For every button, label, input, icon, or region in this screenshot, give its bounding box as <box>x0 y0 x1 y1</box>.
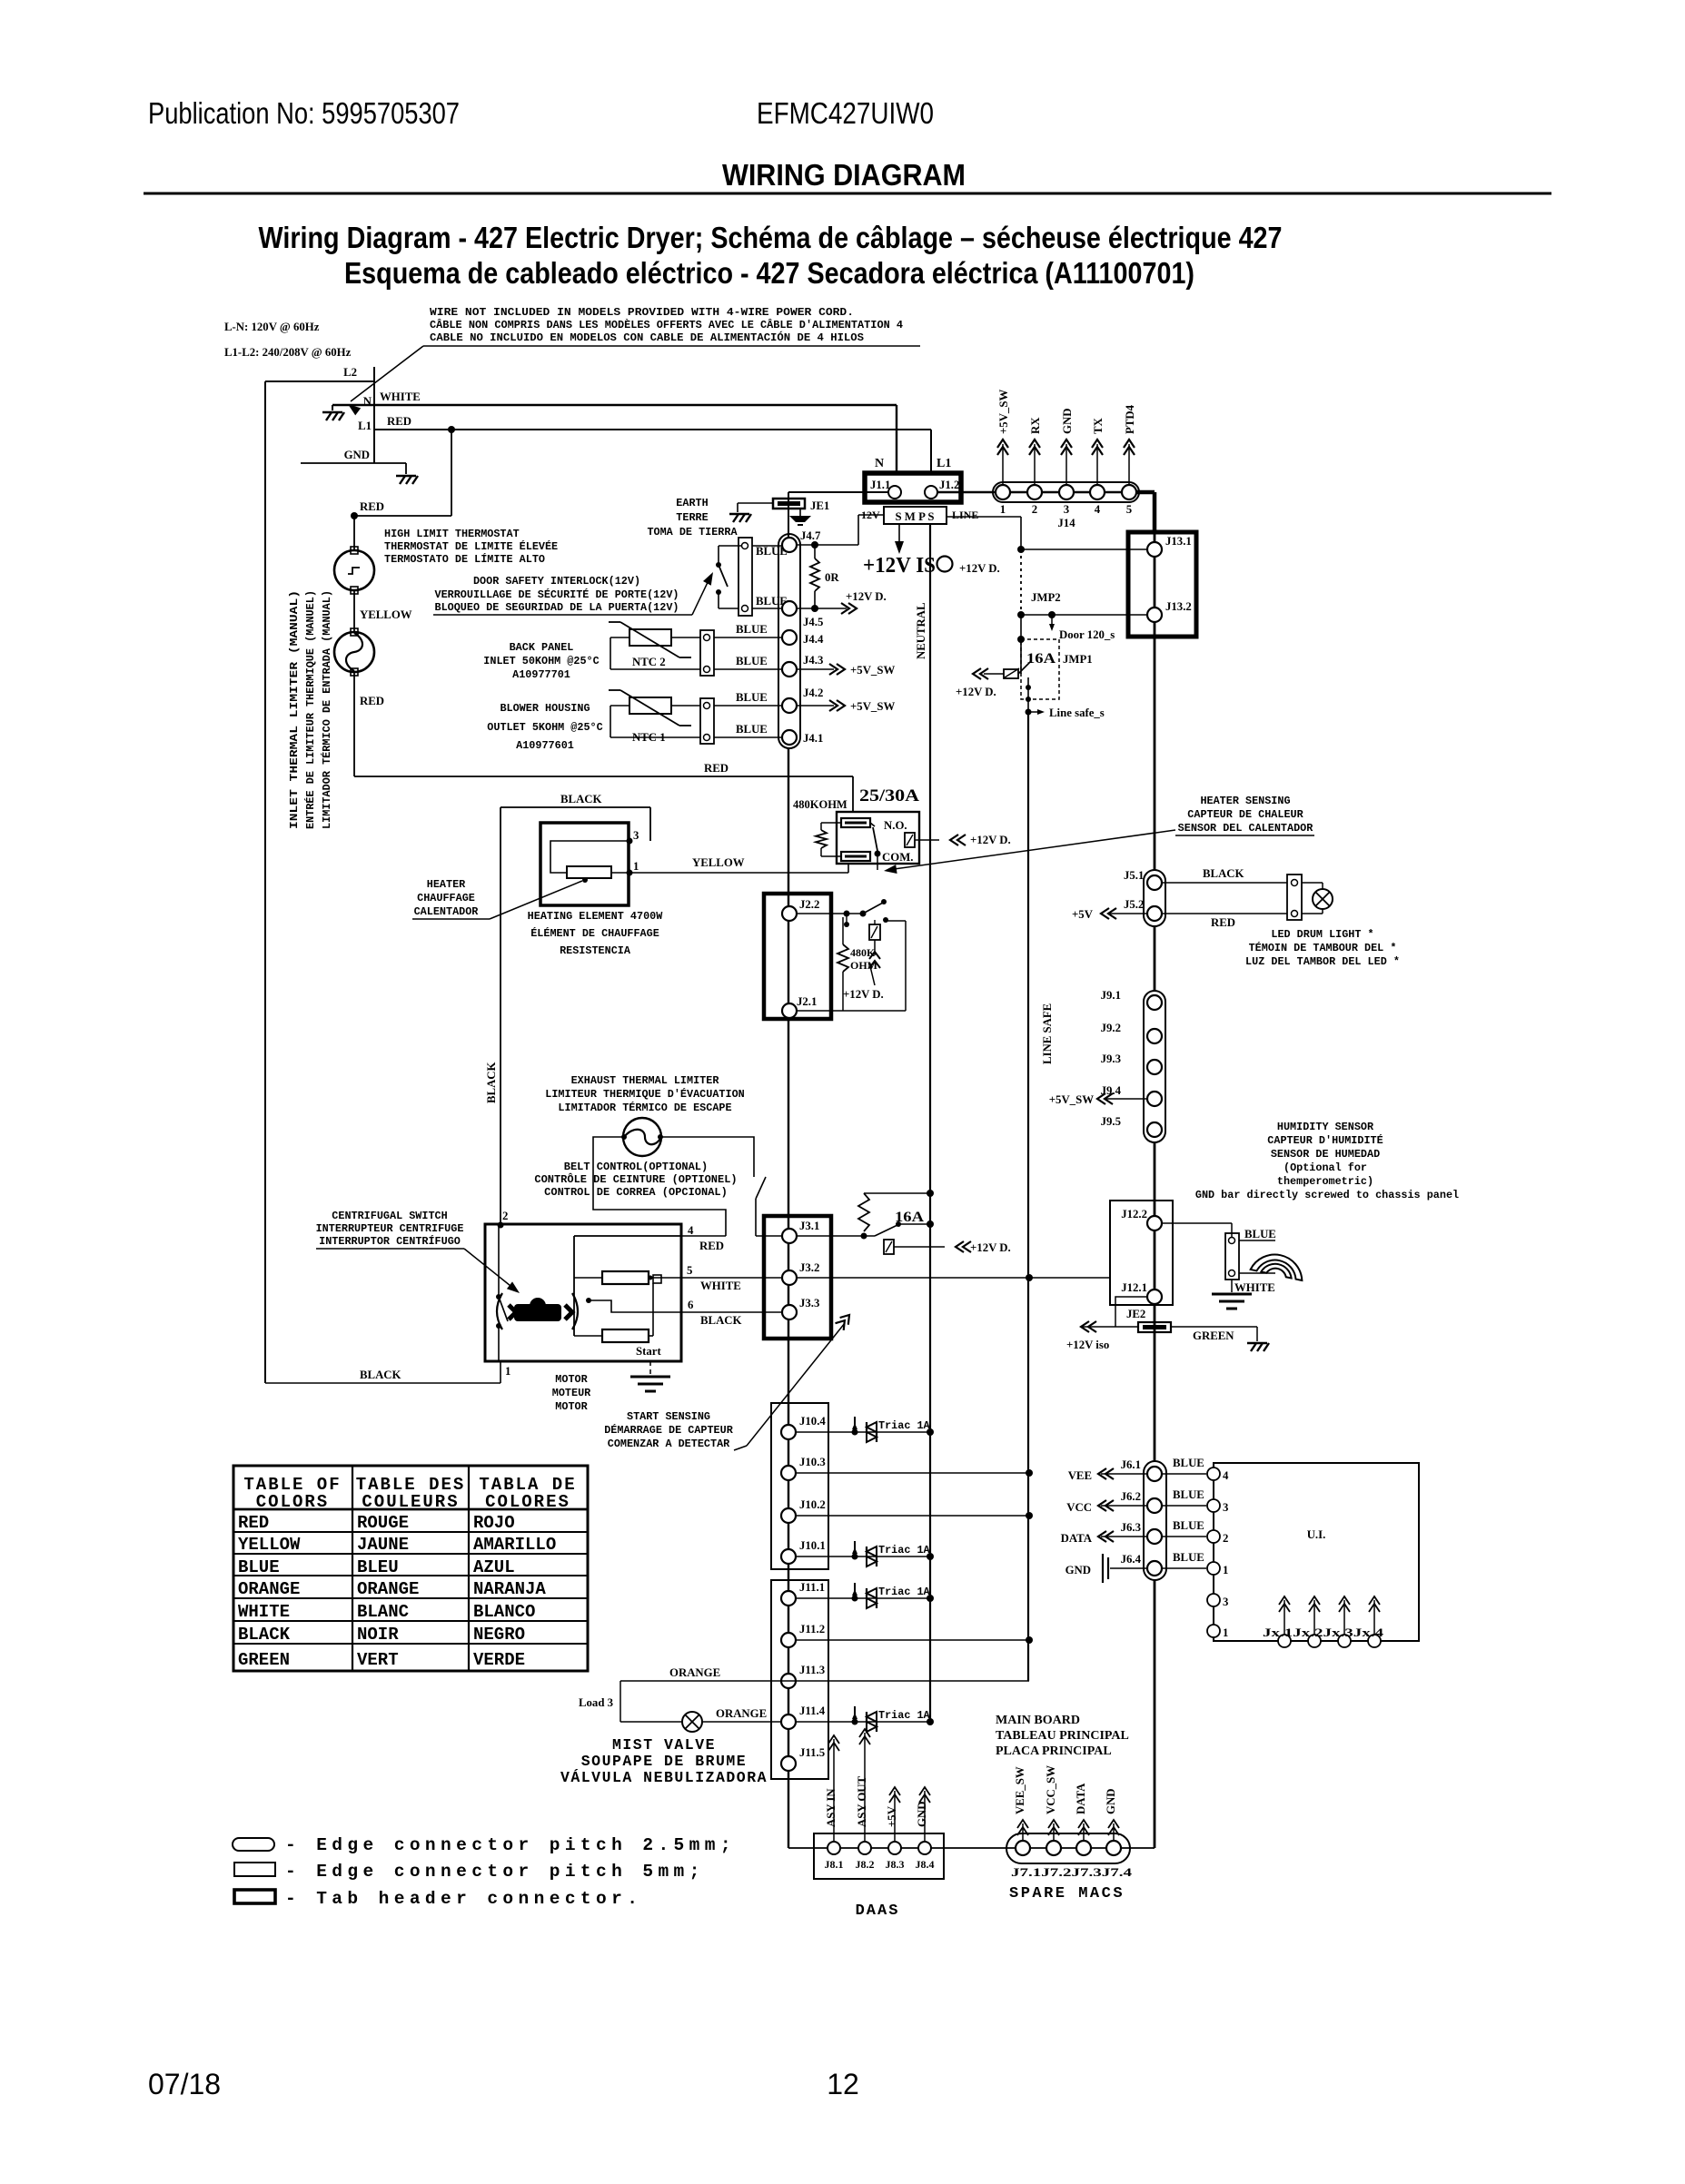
svg-text:J2.1: J2.1 <box>797 995 817 1008</box>
svg-text:ORANGE: ORANGE <box>669 1666 720 1679</box>
wire J3.2 long <box>797 1277 1110 1279</box>
pin J11.4 <box>781 1715 796 1729</box>
svg-text:COMENZAR A DETECTAR: COMENZAR A DETECTAR <box>608 1438 730 1450</box>
svg-text:GND: GND <box>1105 1789 1117 1814</box>
pin J14.1 <box>996 485 1010 499</box>
svg-text:WHITE: WHITE <box>700 1280 741 1292</box>
pin J11.1 <box>781 1591 796 1606</box>
svg-text:ASY OUT: ASY OUT <box>856 1775 868 1827</box>
svg-text:NOIR: NOIR <box>357 1625 399 1645</box>
svg-text:N: N <box>875 457 884 470</box>
pin J7.2 <box>1046 1841 1061 1855</box>
svg-text:HIGH LIMIT THERMOSTAT: HIGH LIMIT THERMOSTAT <box>384 528 520 540</box>
heater outer box <box>540 823 629 905</box>
svg-text:4: 4 <box>1223 1469 1229 1482</box>
pin J4.7 <box>782 538 797 552</box>
svg-text:YELLOW: YELLOW <box>360 608 412 621</box>
svg-text:U.I.: U.I. <box>1307 1528 1326 1541</box>
svg-text:HEATING ELEMENT 4700W: HEATING ELEMENT 4700W <box>528 910 664 923</box>
NTC1 loop wires <box>610 705 629 707</box>
connector J14 (edge 2.5mm) <box>993 482 1139 502</box>
bus J3 to J10 <box>788 1339 789 1403</box>
bus J6 to J7 <box>1154 1580 1156 1848</box>
wire RED horizontal <box>354 776 853 777</box>
pin J13.2 <box>1147 608 1162 622</box>
svg-text:L2: L2 <box>343 366 357 379</box>
svg-text:SOUPAPE DE BRUME: SOUPAPE DE BRUME <box>581 1753 747 1770</box>
svg-text:2: 2 <box>1223 1532 1228 1545</box>
svg-text:SENSOR DE HUMEDAD: SENSOR DE HUMEDAD <box>1271 1148 1380 1161</box>
VEE arrow <box>1101 1473 1147 1475</box>
svg-text:Load 3: Load 3 <box>579 1696 613 1709</box>
wire from limiter down to RED bus <box>353 672 355 776</box>
UI pins 3,1 lower <box>1207 1594 1220 1606</box>
pin J6.4 <box>1147 1561 1162 1576</box>
triac 1A <box>852 1719 858 1725</box>
svg-text:LINE SAFE: LINE SAFE <box>1041 1003 1054 1064</box>
svg-text:RED: RED <box>360 695 384 707</box>
svg-text:RED: RED <box>1211 916 1235 929</box>
pin J6.2 <box>1147 1498 1162 1513</box>
pin J9.2 <box>1147 1029 1162 1043</box>
svg-text:CABLE NO INCLUIDO EN MODELOS C: CABLE NO INCLUIDO EN MODELOS CON CABLE D… <box>430 331 864 344</box>
NTC2 thermistor <box>629 629 671 646</box>
svg-text:3: 3 <box>1223 1596 1228 1608</box>
svg-text:LINE: LINE <box>952 509 978 521</box>
pin J11.3 <box>781 1674 796 1688</box>
svg-text:1: 1 <box>1223 1564 1228 1576</box>
wire WHITE (N) <box>332 404 897 406</box>
svg-text:DATA: DATA <box>1061 1532 1093 1545</box>
svg-text:GND: GND <box>916 1802 928 1827</box>
pin J5.1 <box>1147 875 1162 890</box>
svg-text:16A: 16A <box>1026 651 1056 667</box>
svg-text:3: 3 <box>1223 1501 1228 1514</box>
svg-text:WIRE NOT INCLUDED IN MODELS PR: WIRE NOT INCLUDED IN MODELS PROVIDED WIT… <box>430 306 854 319</box>
svg-text:BLACK: BLACK <box>485 1062 498 1103</box>
pin J8.1 <box>828 1842 840 1854</box>
svg-text:BELT CONTROL(OPTIONAL): BELT CONTROL(OPTIONAL) <box>564 1161 708 1173</box>
wire J1.2 to J14 pin1 <box>937 491 1136 493</box>
step from J12.1 <box>1115 1297 1147 1327</box>
pin J4.2 <box>782 698 797 713</box>
svg-text:Jx.1Jx.2Jx.3Jx.4: Jx.1Jx.2Jx.3Jx.4 <box>1263 1626 1384 1639</box>
wire J12.2 to humidity connector <box>1162 1222 1232 1224</box>
svg-text:themperometric): themperometric) <box>1277 1175 1373 1188</box>
svg-text:RED: RED <box>360 500 384 513</box>
svg-text:TX: TX <box>1092 417 1105 434</box>
NTC1 thermistor <box>629 697 671 714</box>
triac 1A <box>852 1596 858 1602</box>
svg-text:2: 2 <box>502 1210 508 1222</box>
svg-text:VERDE: VERDE <box>473 1650 525 1670</box>
humidity ground <box>1231 1280 1233 1292</box>
svg-text:A10977601: A10977601 <box>516 739 574 752</box>
relay switch blade <box>870 823 875 826</box>
wire YELLOW to relay <box>629 872 848 874</box>
mist valve lamp <box>682 1712 702 1732</box>
svg-text:THERMOSTAT DE LIMITE ÉLEVÉE: THERMOSTAT DE LIMITE ÉLEVÉE <box>384 540 558 553</box>
svg-text:+12V D.: +12V D. <box>970 1241 1011 1254</box>
wire JE2 to green ground <box>1171 1326 1257 1328</box>
svg-text:6: 6 <box>688 1299 694 1311</box>
svg-text:YELLOW: YELLOW <box>238 1535 301 1555</box>
svg-text:J12.2: J12.2 <box>1121 1208 1147 1220</box>
limiter right to belt switch <box>661 1137 754 1177</box>
connector J6 (edge 2.5mm) <box>1144 1461 1166 1580</box>
pin J10.2 <box>781 1508 796 1523</box>
svg-text:J11.2: J11.2 <box>799 1623 825 1636</box>
svg-text:BLUE: BLUE <box>1173 1551 1204 1564</box>
svg-text:COLORS: COLORS <box>256 1492 329 1512</box>
svg-text:BLUE: BLUE <box>1173 1488 1204 1501</box>
svg-text:J4.3: J4.3 <box>803 654 823 667</box>
svg-text:J8.3: J8.3 <box>886 1858 905 1871</box>
junction on RED wire <box>448 426 455 433</box>
wire: left border vertical <box>264 381 266 1383</box>
J14 breakout arrows <box>1002 444 1004 485</box>
svg-text:+5V_SW: +5V_SW <box>1049 1093 1094 1106</box>
wire to high limit thermostat <box>351 512 358 519</box>
wire J10.3 to line safe <box>796 1472 1029 1474</box>
svg-text:- Edge connector pitch 5mm;: - Edge connector pitch 5mm; <box>285 1862 705 1882</box>
svg-text:CENTRIFUGAL SWITCH: CENTRIFUGAL SWITCH <box>332 1210 447 1222</box>
svg-text:3: 3 <box>1064 503 1069 516</box>
DAAS box <box>814 1833 944 1879</box>
belt switch lower wire to J3.1 <box>755 1199 757 1236</box>
svg-text:J3.2: J3.2 <box>799 1261 819 1274</box>
svg-text:Triac 1A: Triac 1A <box>878 1586 931 1598</box>
svg-text:BLACK: BLACK <box>1203 867 1244 880</box>
svg-text:VERT: VERT <box>357 1650 399 1670</box>
svg-text:Triac 1A: Triac 1A <box>878 1419 931 1432</box>
start winding <box>574 1335 602 1337</box>
svg-text:1: 1 <box>1223 1626 1228 1639</box>
J7 breakout arrows <box>1022 1823 1024 1840</box>
svg-text:J13.1: J13.1 <box>1165 535 1192 548</box>
svg-text:GND: GND <box>344 449 370 461</box>
svg-text:CAPTEUR DE CHALEUR: CAPTEUR DE CHALEUR <box>1187 808 1303 821</box>
wire J11.1 triac to neutral <box>796 1597 930 1599</box>
svg-text:JMP1: JMP1 <box>1063 653 1093 666</box>
wire J14 pin5 to J13 bus <box>1136 490 1155 495</box>
svg-text:BLACK: BLACK <box>560 793 602 805</box>
svg-text:JE1: JE1 <box>810 499 829 512</box>
pin J8.2 <box>858 1842 871 1854</box>
svg-text:CÂBLE NON COMPRIS DANS LES MOD: CÂBLE NON COMPRIS DANS LES MODÈLES OFFER… <box>430 319 903 331</box>
svg-text:YELLOW: YELLOW <box>692 856 745 869</box>
svg-text:J4.2: J4.2 <box>803 687 823 699</box>
svg-text:Line safe_s: Line safe_s <box>1049 707 1105 719</box>
connector J9 (edge 2.5mm) <box>1144 991 1165 1142</box>
wire J5.1 to lamp connector <box>1162 882 1287 884</box>
pin J14.4 <box>1090 485 1105 499</box>
wire J4.3 +5V_SW arrow <box>797 668 834 670</box>
svg-text:MIST VALVE: MIST VALVE <box>612 1736 716 1754</box>
wire to JE1 <box>738 502 773 504</box>
svg-text:480K: 480K <box>850 946 876 959</box>
pin J4.1 <box>782 730 797 745</box>
pin J13.1 <box>1147 542 1162 557</box>
COM sense stub <box>877 854 878 870</box>
svg-text:DAAS: DAAS <box>856 1902 900 1920</box>
svg-text:CALENTADOR: CALENTADOR <box>414 905 480 918</box>
svg-text:J13.2: J13.2 <box>1165 600 1192 613</box>
+12V iso arrow to JE2 <box>1081 1321 1089 1332</box>
svg-text:J5.1: J5.1 <box>1124 869 1144 882</box>
svg-text:25/30A: 25/30A <box>859 786 919 805</box>
svg-text:ASY IN: ASY IN <box>825 1788 838 1827</box>
svg-text:0R: 0R <box>825 571 839 584</box>
SMPS box <box>884 507 947 524</box>
svg-text:1: 1 <box>633 860 639 873</box>
pin J3.2 <box>782 1270 797 1285</box>
svg-text:J4.5: J4.5 <box>803 616 823 628</box>
DATA arrow <box>1101 1536 1147 1537</box>
drum light lamp <box>1302 882 1323 884</box>
svg-text:ÉLÉMENT DE CHAUFFAGE: ÉLÉMENT DE CHAUFFAGE <box>530 927 659 940</box>
GND at J6.4 <box>1110 1567 1147 1569</box>
pin J4.3 <box>782 662 797 677</box>
legend: edge connector 2.5mm <box>233 1838 274 1851</box>
svg-text:LIMITEUR THERMIQUE D'ÉVACUATIO: LIMITEUR THERMIQUE D'ÉVACUATION <box>545 1088 744 1101</box>
jumper JMP2 dashed <box>1020 549 1022 615</box>
svg-text:+12V D.: +12V D. <box>959 562 1000 575</box>
ground symbol GND <box>396 476 418 484</box>
exhaust thermal limiter symbol <box>623 1118 661 1156</box>
humidity connector (5mm) <box>1225 1233 1239 1280</box>
wire pin1 BLACK to left border <box>500 1361 501 1383</box>
svg-text:Door 120_s: Door 120_s <box>1059 628 1115 641</box>
wire pin6 to J3.3 <box>681 1311 782 1313</box>
svg-text:J7.1J7.2J7.3J7.4: J7.1J7.2J7.3J7.4 <box>1011 1866 1133 1879</box>
pin J8.4 <box>918 1842 931 1854</box>
wire GND <box>301 462 406 464</box>
wire J4.5 +12VD arrow <box>797 608 847 609</box>
svg-text:J5.2: J5.2 <box>1124 898 1144 911</box>
svg-text:J6.4: J6.4 <box>1121 1553 1142 1566</box>
svg-text:BLACK: BLACK <box>238 1625 291 1645</box>
svg-text:12V: 12V <box>861 509 880 521</box>
relay bottom contact connector <box>841 852 870 861</box>
svg-text:LED DRUM LIGHT *: LED DRUM LIGHT * <box>1271 928 1373 941</box>
wire J1.1 to JE1/J4.7 vertical <box>788 492 789 545</box>
svg-text:EFMC427UIW0: EFMC427UIW0 <box>757 96 934 130</box>
svg-text:TERRE: TERRE <box>676 511 708 524</box>
svg-text:J6.3: J6.3 <box>1121 1521 1141 1534</box>
svg-text:CONTRÔLE DE CEINTURE (OPTIONEL: CONTRÔLE DE CEINTURE (OPTIONEL) <box>534 1172 737 1186</box>
svg-text:+12V iso: +12V iso <box>1066 1339 1109 1351</box>
LINE SAFE bus <box>1027 712 1029 1681</box>
svg-text:J9.1: J9.1 <box>1101 989 1121 1002</box>
connector J12 box <box>1110 1201 1173 1305</box>
humidity sensor arcs <box>1239 1240 1275 1241</box>
pin J2.1 <box>782 1003 797 1018</box>
svg-text:ROJO: ROJO <box>473 1513 515 1533</box>
NTC2 connector (5mm) <box>700 630 714 676</box>
wire pin4 <box>681 1235 726 1237</box>
svg-text:J4.7: J4.7 <box>800 529 821 542</box>
wire down to 16A switch <box>1020 615 1022 674</box>
bus from J4.1 down across RED/YELLOW <box>788 748 789 894</box>
svg-text:ENTRÉE DE LIMITEUR THERMIQUE (: ENTRÉE DE LIMITEUR THERMIQUE (MANUEL) <box>303 590 317 829</box>
svg-text:BLUE: BLUE <box>1173 1519 1204 1532</box>
pin J6.3 <box>1147 1529 1162 1544</box>
svg-text:J10.3: J10.3 <box>799 1456 826 1468</box>
svg-text:MAIN BOARD: MAIN BOARD <box>996 1714 1080 1727</box>
svg-text:HEATER: HEATER <box>427 878 466 891</box>
svg-text:ROUGE: ROUGE <box>357 1513 409 1533</box>
svg-text:J8.4: J8.4 <box>916 1858 935 1871</box>
wire JE1 vertical through <box>788 509 789 534</box>
svg-text:BLACK: BLACK <box>360 1369 401 1381</box>
svg-text:Triac 1A: Triac 1A <box>878 1544 931 1556</box>
bus through J12 <box>1154 1201 1156 1305</box>
svg-text:LUZ DEL TAMBOR DEL LED *: LUZ DEL TAMBOR DEL LED * <box>1245 955 1400 968</box>
connector J7 (edge 2.5mm) <box>1006 1833 1130 1863</box>
svg-text:ORANGE: ORANGE <box>238 1579 300 1599</box>
table of colors <box>233 1466 588 1671</box>
svg-text:DOOR SAFETY INTERLOCK(12V): DOOR SAFETY INTERLOCK(12V) <box>473 575 640 588</box>
svg-text:HEATER SENSING: HEATER SENSING <box>1200 795 1290 807</box>
svg-text:CHAUFFAGE: CHAUFFAGE <box>417 892 475 904</box>
svg-text:BLUE: BLUE <box>736 623 768 636</box>
loop to J2.1 <box>797 1010 906 1012</box>
svg-text:GND: GND <box>1061 409 1074 434</box>
belt switch blade <box>756 1177 766 1199</box>
svg-text:+5V_SW: +5V_SW <box>850 700 895 713</box>
pin J2.2 <box>782 906 797 921</box>
svg-text:BLANCO: BLANCO <box>473 1602 535 1622</box>
svg-text:ORANGE: ORANGE <box>357 1579 419 1599</box>
relay coil <box>905 833 915 847</box>
svg-text:J6.1: J6.1 <box>1121 1458 1141 1471</box>
wire to J13.1 <box>1017 546 1025 553</box>
relay top contact connector <box>841 818 870 827</box>
svg-text:+5V_SW: +5V_SW <box>997 390 1010 434</box>
svg-text:BACK PANEL: BACK PANEL <box>510 641 574 654</box>
pin J12.1 <box>1147 1290 1162 1304</box>
svg-text:PTD4: PTD4 <box>1124 404 1136 434</box>
svg-text:OUTLET 5KOHM @25°C: OUTLET 5KOHM @25°C <box>487 721 602 734</box>
wire J1.1 left to JE1 drop <box>788 491 888 493</box>
triac 1A <box>852 1429 858 1436</box>
pin J8.3 <box>888 1842 901 1854</box>
svg-text:GREEN: GREEN <box>1193 1329 1234 1342</box>
svg-text:VEE: VEE <box>1068 1469 1092 1482</box>
svg-text:TOMA DE TIERRA: TOMA DE TIERRA <box>647 526 738 539</box>
pin J5.2 <box>1147 906 1162 921</box>
pin J10.1 <box>781 1549 796 1564</box>
pin J11.5 <box>781 1756 796 1771</box>
svg-text:J11.4: J11.4 <box>799 1705 826 1717</box>
bus J5 to J9 <box>1154 926 1156 991</box>
VCC arrow <box>1101 1505 1147 1507</box>
bus J2 to J3 <box>788 1019 789 1216</box>
svg-text:BLUE: BLUE <box>736 655 768 667</box>
svg-text:RED: RED <box>704 762 729 775</box>
wire J11.2 to line safe <box>796 1639 1029 1641</box>
svg-text:INTERRUPTEUR CENTRIFUGE: INTERRUPTEUR CENTRIFUGE <box>316 1222 464 1235</box>
pin J7.3 <box>1076 1841 1091 1855</box>
bus through J2 <box>788 894 789 1019</box>
svg-text:BLEU: BLEU <box>357 1557 399 1577</box>
ground below JE1 <box>799 509 801 516</box>
svg-text:MOTOR: MOTOR <box>555 1373 588 1386</box>
svg-text:L-N: 120V @ 60Hz: L-N: 120V @ 60Hz <box>224 321 320 333</box>
svg-text:DATA: DATA <box>1075 1783 1087 1814</box>
svg-text:+5V: +5V <box>1072 908 1094 921</box>
svg-text:INLET 50KOHM @25°C: INLET 50KOHM @25°C <box>483 655 599 667</box>
pin J10.4 <box>781 1425 796 1439</box>
Jx pins on UI bottom <box>1278 1635 1291 1647</box>
svg-text:J4.1: J4.1 <box>803 732 823 745</box>
svg-text:AZUL: AZUL <box>473 1557 515 1577</box>
svg-text:RESISTENCIA: RESISTENCIA <box>560 944 631 957</box>
callout to heater element <box>490 881 582 919</box>
Line safe_s stub <box>1028 711 1041 713</box>
svg-text:J9.3: J9.3 <box>1101 1052 1121 1065</box>
firing arrow <box>874 940 876 955</box>
svg-text:VERROUILLAGE DE SÉCURITÉ DE PO: VERROUILLAGE DE SÉCURITÉ DE PORTE(12V) <box>434 588 679 601</box>
svg-text:TERMOSTATO DE LÍMITE ALTO: TERMOSTATO DE LÍMITE ALTO <box>384 553 545 566</box>
svg-text:BLOWER HOUSING: BLOWER HOUSING <box>500 702 590 715</box>
wire between thermostats <box>353 590 355 632</box>
tab header connector J2 <box>764 894 831 1019</box>
svg-text:GREEN: GREEN <box>238 1650 290 1670</box>
wire J11.3 orange loop to line safe <box>620 1680 1029 1682</box>
callout to centrifugal switch <box>464 1249 515 1290</box>
Door 120_s stub <box>1051 615 1053 628</box>
svg-text:5: 5 <box>1126 503 1132 516</box>
motor armature <box>497 1293 502 1329</box>
tab header connector J3 <box>764 1216 831 1339</box>
svg-text:ORANGE: ORANGE <box>716 1707 767 1720</box>
svg-text:480KOHM: 480KOHM <box>793 798 847 811</box>
bottom wire J8-J7 <box>788 1847 1155 1849</box>
svg-text:SPARE MACS: SPARE MACS <box>1009 1885 1125 1902</box>
heater sensing callout diagonal <box>887 830 1175 870</box>
bus JE2 down to J6 <box>1154 1305 1156 1461</box>
16A switch at J3.1 <box>797 1235 875 1237</box>
svg-text:BLUE: BLUE <box>1244 1228 1276 1240</box>
high limit thermostat (manual) <box>334 550 374 590</box>
door interlock connector (5mm) <box>738 538 752 616</box>
svg-text:J8.2: J8.2 <box>856 1858 875 1871</box>
svg-text:GND bar directly screwed to ch: GND bar directly screwed to chassis pane… <box>1195 1189 1459 1201</box>
centrifugal switch contacts <box>498 1225 500 1297</box>
connector J5 (edge 2.5mm) <box>1144 870 1165 926</box>
start switch contact <box>653 1275 661 1283</box>
LINE wire from SMPS <box>947 516 1021 518</box>
svg-text:(Optional for: (Optional for <box>1284 1161 1367 1174</box>
svg-text:VCC: VCC <box>1066 1501 1092 1514</box>
svg-text:BLOQUEO DE SEGURIDAD DE LA PUE: BLOQUEO DE SEGURIDAD DE LA PUERTA(12V) <box>434 601 679 614</box>
inlet thermal limiter circle <box>334 632 374 672</box>
callout to door switch <box>692 577 710 615</box>
svg-text:S M P S: S M P S <box>895 510 934 523</box>
svg-text:LIMITADOR TÉRMICO DE ENTRADA (: LIMITADOR TÉRMICO DE ENTRADA (MANUAL) <box>320 590 333 829</box>
svg-text:J12.1: J12.1 <box>1121 1281 1147 1294</box>
ground at N <box>322 412 344 420</box>
svg-text:RED: RED <box>387 415 411 428</box>
ground at TOMA <box>729 514 751 522</box>
svg-text:- Edge connector pitch 2.5mm;: - Edge connector pitch 2.5mm; <box>285 1835 736 1855</box>
svg-text:LIMITADOR TÉRMICO DE ESCAPE: LIMITADOR TÉRMICO DE ESCAPE <box>558 1102 731 1114</box>
svg-text:JAUNE: JAUNE <box>357 1535 409 1555</box>
svg-text:OHM: OHM <box>850 959 877 972</box>
pin J9.1 <box>1147 995 1162 1010</box>
